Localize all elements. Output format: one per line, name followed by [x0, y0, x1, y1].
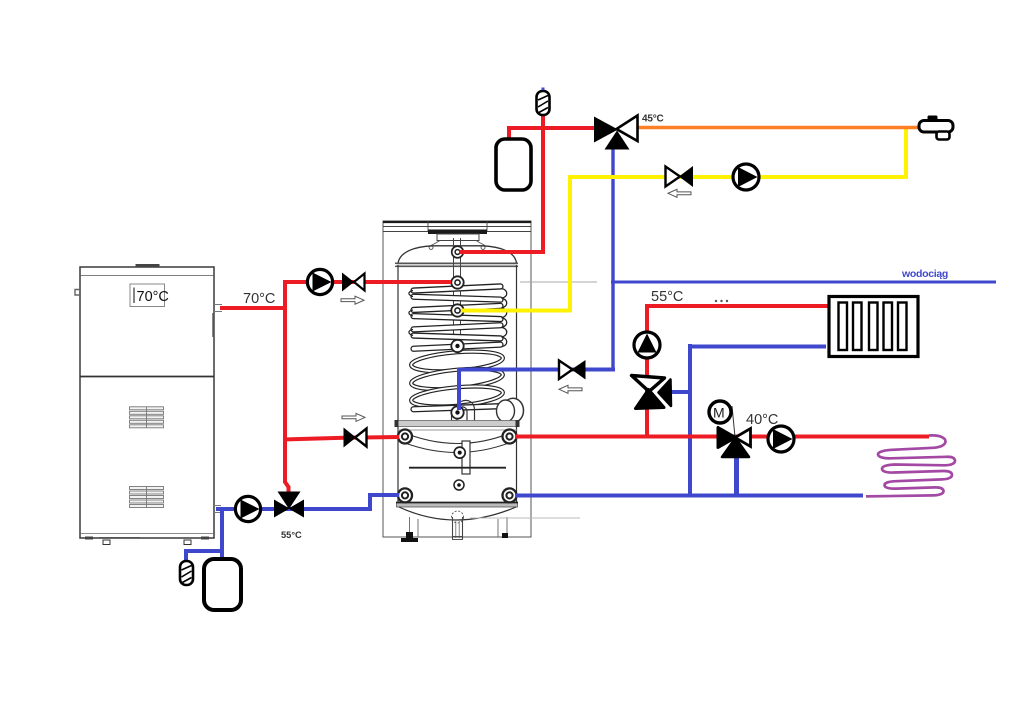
label dots — [715, 300, 717, 302]
tank port middle sensor — [451, 340, 463, 352]
tank legs — [409, 517, 411, 537]
valve gate V3 on middle red — [344, 428, 367, 448]
tank anode bar — [462, 441, 470, 474]
valve 3-way thermostatic V1 55C bottom left — [274, 492, 304, 518]
tank right foot — [502, 533, 508, 538]
wire blue boiler return horizontal — [216, 507, 372, 511]
boiler top inner line — [80, 275, 214, 277]
wire yellow overlay at blue vertical crossing — [604, 175, 623, 179]
tank internal coil — [409, 284, 507, 412]
tank port small lower — [454, 480, 464, 490]
boiler return nozzle — [214, 505, 221, 507]
svg-text:40°C: 40°C — [746, 412, 778, 428]
boiler vent grille lower — [130, 487, 164, 508]
tank coil bottom elbow — [459, 400, 475, 420]
wire red top horizontal to tank upper port — [283, 280, 451, 284]
BOILER-LAYER — [75, 264, 222, 545]
wire blue drop to expansion vessel — [220, 509, 224, 560]
wire purple floor heating serpentine loop — [866, 435, 955, 496]
wire blue wodociag cold water main — [611, 281, 996, 284]
tank outer frame — [383, 221, 531, 537]
wire yellow vertical right riser — [904, 127, 908, 179]
wire red main horizontal right 40C circuit — [515, 435, 929, 439]
wire blue stub from 55C valve to vertical — [668, 390, 692, 394]
wire red vertical DHW hot riser — [541, 127, 545, 254]
tank left foot — [401, 532, 418, 542]
tank separator band — [396, 421, 518, 427]
wire blue coil drop overlay — [457, 368, 461, 410]
boiler right side dark edge — [212, 313, 214, 337]
wire red 55C horizontal to radiator — [645, 304, 829, 308]
boiler top handle — [136, 264, 160, 267]
wire blue jog up to tank bottom port — [370, 495, 399, 509]
wire red top horizontal to 45C valve — [507, 126, 597, 130]
tank drain assembly — [452, 511, 464, 523]
COMPONENTS-LAYER — [180, 88, 953, 611]
wire red stem to air vent capsule — [541, 112, 545, 129]
pump P5 floor heating — [768, 426, 794, 452]
pump P3 DHW recirculation — [733, 164, 759, 190]
expansion vessel top — [496, 139, 531, 190]
wire blue DHW cold vertical — [611, 147, 614, 372]
flow arrow right above V3 — [342, 413, 365, 421]
wire yellow long horizontal return — [568, 175, 908, 179]
boiler left hinge — [75, 290, 80, 296]
tank port upper (red in) — [451, 276, 463, 288]
motor actuator M — [709, 401, 735, 437]
wire blue bottom main from tank to floor loop — [515, 494, 863, 498]
tank port right red — [503, 430, 517, 444]
tank port yellow DHW — [451, 304, 463, 316]
flow arrow right below V2 — [341, 296, 364, 304]
boiler supply nozzle — [214, 304, 222, 306]
pump P1 boiler loadng circuit — [235, 496, 260, 521]
svg-text:wodociąg: wodociąg — [901, 268, 948, 280]
wire blue drop from 40C valve — [734, 450, 739, 497]
tank bottom band — [397, 503, 518, 508]
boiler bottom inner line — [80, 533, 214, 535]
valve 3-way mixing V4 45C — [594, 116, 638, 150]
tank leader line upper — [520, 281, 597, 283]
svg-text:55°C: 55°C — [281, 530, 302, 540]
tank port left red — [398, 430, 412, 444]
wire blue coil drop inside tank — [457, 368, 461, 410]
TANK-LAYER — [383, 221, 597, 542]
wire red from tank top port to riser — [460, 250, 546, 254]
wire blue radiator return horizontal — [690, 345, 826, 349]
wire red boiler supply horizontal 70C — [220, 306, 287, 310]
PIPES-LAYER — [186, 112, 996, 561]
tank port right blue — [503, 488, 517, 502]
tank port left blue — [398, 488, 412, 502]
tank cylinder side walls — [397, 265, 399, 503]
boiler middle divider — [80, 376, 214, 378]
svg-text:45°C: 45°C — [642, 114, 664, 125]
wire red riser vertical left — [285, 280, 289, 497]
expansion vessel bottom — [204, 559, 241, 610]
tank center pipe — [453, 238, 455, 412]
air separator top right — [919, 116, 953, 140]
svg-text:55°C: 55°C — [651, 289, 683, 305]
tank upper weld band — [397, 263, 518, 267]
boiler vent grille upper — [130, 407, 164, 428]
wire blue overlay at yellow vertical crossing — [561, 368, 580, 372]
wire orange 45C supply horizontal — [635, 126, 920, 130]
valve check CV1 on yellow return — [666, 166, 694, 187]
flow arrow left below CV2 — [559, 385, 582, 393]
tank curve between side ports — [405, 443, 509, 453]
svg-text:70°C: 70°C — [243, 291, 275, 307]
wire red 55C circuit vertical — [645, 304, 649, 438]
boiler body — [80, 267, 214, 538]
wire yellow from tank DHW port — [461, 309, 572, 313]
valve gate V2 on 70C supply — [342, 273, 365, 292]
wire blue horizontal inside tank (redrawn over coil) — [461, 368, 530, 372]
tank lower horizontal line — [409, 467, 506, 469]
tank side manhole oval — [503, 398, 524, 422]
pump P4 radiator circuit — [634, 332, 660, 358]
wire red main overlay at blue crossing — [682, 435, 700, 439]
wire red stub down to expansion vessel — [507, 127, 511, 140]
air vent capsule bottom — [180, 561, 193, 585]
svg-text:M: M — [713, 405, 725, 421]
air vent capsule top — [537, 88, 550, 116]
tank top cap plate — [383, 221, 531, 234]
svg-text:70°C: 70°C — [137, 289, 169, 305]
LABELS-LAYER — [243, 114, 948, 541]
wire yellow vertical — [568, 175, 572, 313]
tank port coil bottom — [451, 406, 463, 418]
wire blue DHW horizontal into tank coil — [461, 368, 615, 372]
tank dome top — [398, 246, 517, 263]
boiler feet — [85, 537, 93, 540]
valve 3-way mixing V5 55C right — [632, 376, 672, 409]
wire blue branch to air vent capsule — [186, 551, 222, 561]
flow arrow left below CV1 — [668, 189, 691, 197]
tank dished curve below band — [397, 429, 517, 431]
radiator — [829, 297, 918, 357]
tank leader line lower — [470, 517, 580, 519]
wire red middle horizontal left to tank — [283, 437, 399, 440]
boiler display tick — [133, 288, 135, 304]
tank neck flange — [429, 234, 485, 249]
wire blue right vertical return — [688, 344, 692, 497]
valve 3-way mixing V6 40C — [718, 428, 751, 458]
tank bottom dish — [399, 507, 516, 520]
valve check CV2 on cold feed to coil — [559, 360, 586, 380]
pump P2 tank charge top — [307, 269, 332, 294]
tank port anode — [454, 447, 465, 458]
boiler display window — [130, 284, 165, 307]
tank port top (red out) — [452, 246, 464, 258]
